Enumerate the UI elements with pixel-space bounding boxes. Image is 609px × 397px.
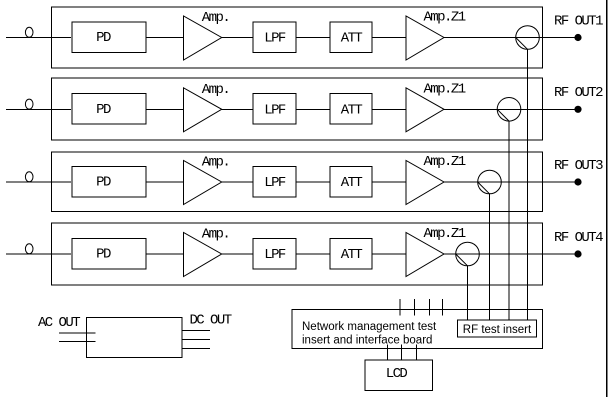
wire row 4	[222, 253, 253, 255]
wire row 1	[296, 37, 330, 39]
node RF OUT1	[574, 34, 581, 41]
node RF OUT4	[574, 250, 581, 257]
svg-text:LPF: LPF	[264, 31, 286, 47]
svg-text:AC OUT: AC OUT	[38, 315, 80, 331]
LCD box	[365, 360, 433, 390]
ATT block row 4	[330, 238, 372, 269]
wire row 4	[296, 253, 330, 255]
svg-text:ATT: ATT	[341, 103, 363, 119]
amplifier Amp.Z1 row 2	[406, 88, 444, 132]
channel 4 board outline	[52, 223, 543, 285]
wire row 2	[296, 108, 330, 110]
wire row 2	[222, 108, 253, 110]
wire: optical input row 2	[6, 108, 71, 110]
test coupler row 1	[516, 26, 540, 50]
ATT block row 2	[330, 94, 372, 125]
wire: coupler tap row 3 down to RF test insert	[489, 194, 491, 320]
optical input connector row 3	[25, 172, 33, 182]
optical input connector row 2	[25, 99, 33, 109]
svg-text:ATT: ATT	[341, 31, 363, 47]
svg-text:Amp.: Amp.	[202, 155, 229, 171]
ATT block row 3	[330, 166, 372, 197]
test coupler row 4	[456, 242, 480, 266]
amplifier Amp.Z1 row 4	[406, 233, 444, 277]
svg-text:RF OUT3: RF OUT3	[554, 158, 603, 174]
svg-text:PD: PD	[96, 30, 111, 46]
svg-text:DC OUT: DC OUT	[189, 313, 231, 329]
wire: DC line 1	[182, 329, 210, 331]
svg-text:Amp.: Amp.	[202, 227, 229, 243]
wire row 2	[444, 108, 497, 110]
wire row 3	[296, 181, 330, 183]
network management board	[292, 310, 543, 349]
wire row 3 output	[501, 181, 578, 183]
wire row 1	[372, 37, 406, 39]
wire row 3	[222, 181, 253, 183]
wire: board top pin 4	[441, 299, 443, 316]
ATT block row 1	[330, 22, 372, 53]
svg-text:Amp.Z1: Amp.Z1	[423, 81, 465, 97]
svg-text:ATT: ATT	[341, 175, 363, 191]
svg-text:RF OUT1: RF OUT1	[554, 13, 603, 29]
optical input connector row 1	[25, 27, 33, 37]
channel 2 board outline	[52, 78, 543, 140]
svg-text:Amp.Z1: Amp.Z1	[423, 226, 465, 242]
wire: coupler tap row 1 down to RF test insert	[527, 49, 529, 320]
svg-text:LPF: LPF	[264, 247, 286, 263]
svg-text:Amp.: Amp.	[202, 10, 229, 26]
test coupler row 2	[497, 98, 521, 122]
svg-text:RF test insert: RF test insert	[463, 324, 532, 336]
channel 1 board outline	[52, 7, 543, 68]
wire row 3	[146, 181, 184, 183]
wire row 1	[146, 37, 184, 39]
wire row 4	[372, 253, 406, 255]
channel 3 board outline	[52, 152, 543, 212]
optical input connector row 4	[25, 244, 33, 254]
LPF block row 1	[253, 22, 296, 53]
svg-text:Network management test: Network management test	[302, 321, 437, 333]
svg-text:Amp.Z1: Amp.Z1	[423, 10, 465, 26]
RF test insert box	[458, 320, 537, 337]
wire: DC line 3	[182, 348, 210, 350]
PD block row 2	[72, 94, 146, 125]
wire: optical input row 1	[6, 37, 71, 39]
svg-text:RF OUT4: RF OUT4	[554, 230, 603, 246]
LPF block row 4	[253, 238, 296, 269]
amplifier Amp row 1	[184, 16, 222, 60]
wire row 1	[444, 37, 516, 39]
svg-text:LCD: LCD	[386, 366, 408, 382]
wire row 4	[444, 253, 456, 255]
amplifier Amp.Z1 row 1	[406, 16, 444, 60]
LPF block row 3	[253, 166, 296, 197]
wire: LCD link 2	[401, 345, 403, 361]
svg-text:PD: PD	[96, 102, 111, 118]
wire: coupler tap row 2 down to RF test insert	[508, 121, 510, 320]
svg-text:ATT: ATT	[341, 247, 363, 263]
wire: AC line 1	[59, 332, 95, 334]
wire row 4	[146, 253, 184, 255]
svg-text:insert and interface board: insert and interface board	[302, 335, 432, 347]
wire: board top pin 3	[429, 299, 431, 316]
wire row 1 output	[539, 37, 578, 39]
PD block row 4	[72, 238, 146, 269]
wire: LCD link 1	[386, 345, 388, 361]
wire: optical input row 3	[6, 181, 71, 183]
wire row 3	[372, 181, 406, 183]
wire row 2 output	[521, 108, 578, 110]
amplifier Amp.Z1 row 3	[406, 161, 444, 205]
svg-text:LPF: LPF	[264, 103, 286, 119]
PD block row 3	[72, 166, 146, 197]
wire: optical input row 4	[6, 253, 71, 255]
LPF block row 2	[253, 94, 296, 125]
wire: DC line 2	[182, 338, 210, 340]
wire: board top pin 1	[399, 299, 401, 316]
amplifier Amp row 2	[184, 88, 222, 132]
wire row 3	[444, 181, 478, 183]
wire row 2	[372, 108, 406, 110]
test coupler row 3	[478, 170, 502, 194]
svg-text:PD: PD	[96, 247, 111, 263]
wire: coupler tap row 4 down to RF test insert	[467, 266, 469, 320]
wire row 4 output	[479, 253, 578, 255]
amplifier Amp row 4	[184, 233, 222, 277]
wire: LCD link 3	[415, 345, 417, 361]
node RF OUT2	[574, 106, 581, 113]
power supply box	[87, 318, 182, 358]
svg-text:LPF: LPF	[264, 175, 286, 191]
PD block row 1	[72, 22, 146, 53]
amplifier Amp row 3	[184, 161, 222, 205]
node RF OUT3	[574, 178, 581, 185]
svg-text:PD: PD	[96, 175, 111, 191]
svg-text:Amp.Z1: Amp.Z1	[423, 154, 465, 170]
wire row 2	[146, 108, 184, 110]
wire row 1	[222, 37, 253, 39]
wire: AC line 2	[59, 341, 95, 343]
svg-text:Amp.: Amp.	[202, 82, 229, 98]
wire: board top pin 2	[414, 299, 416, 316]
svg-text:RF OUT2: RF OUT2	[554, 85, 603, 101]
